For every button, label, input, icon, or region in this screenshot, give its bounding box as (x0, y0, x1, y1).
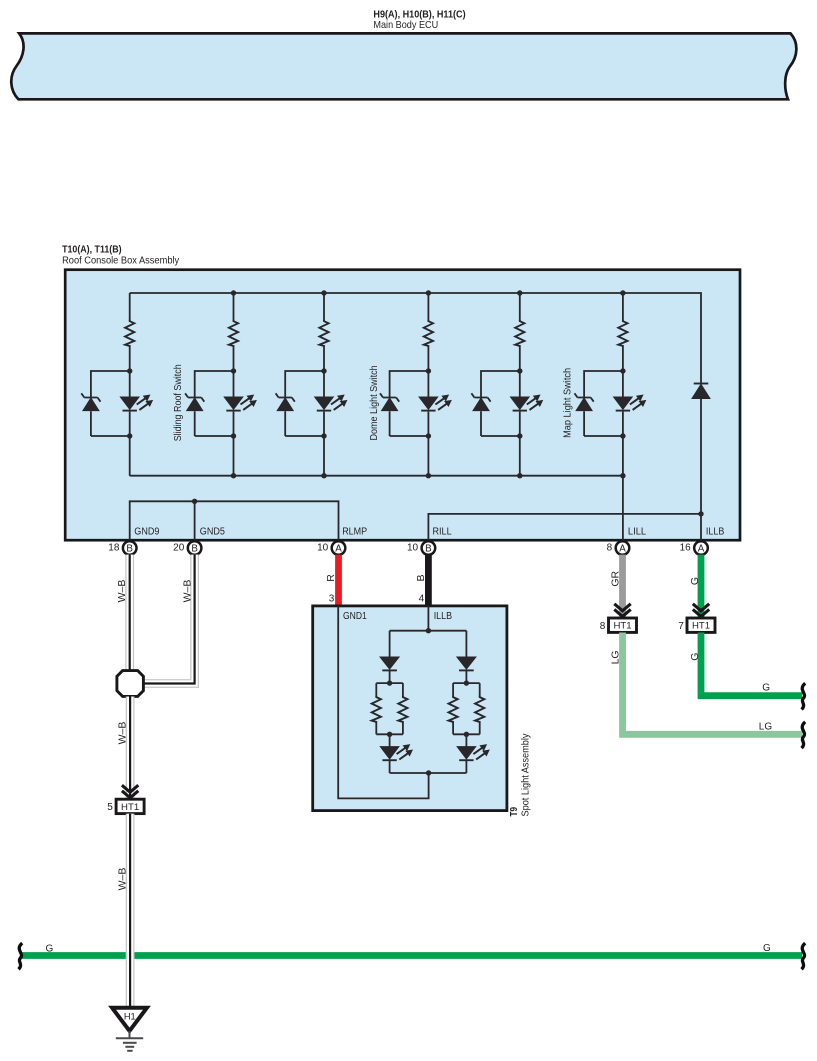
resistor branch 3 (319, 320, 328, 346)
svg-text:20: 20 (173, 543, 185, 554)
torn end of G wire (802, 683, 806, 709)
junction dots branch 5 (517, 290, 522, 478)
pin 8(A) of roof console box (607, 541, 630, 555)
svg-text:ILLB: ILLB (706, 526, 725, 537)
pin 18(B) of roof console box (108, 541, 136, 555)
svg-text:RILL: RILL (433, 526, 452, 537)
svg-text:A: A (619, 544, 626, 555)
wire branch 5 vertical (519, 293, 521, 476)
chevron splice above HT1 pin 5 (122, 785, 138, 798)
resistor branch 5 (515, 320, 524, 346)
wire branch 2 vertical (233, 293, 235, 476)
svg-text:RLMP: RLMP (342, 526, 367, 537)
pin 20(B) of roof console box (173, 541, 201, 555)
svg-text:18: 18 (108, 543, 120, 554)
svg-text:7: 7 (678, 621, 684, 632)
svg-text:B: B (126, 544, 133, 555)
pin 10(A) of roof console box (317, 541, 345, 555)
wire branch 4 vertical (427, 293, 429, 476)
svg-text:Dome Light Switch: Dome Light Switch (369, 365, 380, 440)
svg-text:LG: LG (610, 650, 622, 664)
ground H1 triangle (112, 1008, 147, 1031)
wire LG from HT1 pin 8 to right edge (623, 633, 803, 735)
wire zener sub-branch 6 (584, 371, 623, 436)
junction ILLB dot (698, 511, 703, 516)
wire W-B from HT1 pin 5 to ground H1 (126, 814, 135, 1007)
wire branch 6 vertical (622, 293, 624, 476)
svg-text:B: B (425, 544, 432, 555)
resistor branch 4 (424, 320, 433, 346)
zener diode branch 2 (185, 393, 204, 410)
svg-text:GND9: GND9 (134, 526, 159, 537)
connector HT1 pin 8 (600, 618, 637, 632)
wire bottom bus inside roof console box (130, 475, 623, 477)
wire G from HT1 pin 7 to right edge (701, 633, 802, 696)
ground stub (129, 1031, 131, 1038)
wire G bottom horizontal (taillight illumination feed) (21, 952, 802, 959)
LED spot right (457, 745, 489, 760)
svg-text:W–B: W–B (181, 580, 193, 603)
wire spot left branch (376, 671, 403, 773)
svg-text:LILL: LILL (628, 526, 647, 537)
svg-text:LG: LG (759, 722, 773, 733)
svg-text:W–B: W–B (117, 868, 129, 891)
wire GND9/GND5/RLMP common link (130, 501, 339, 541)
svg-text:B: B (191, 544, 198, 555)
wire zener sub-branch 2 (195, 371, 234, 436)
wire R from RLMP pin 10(A) to spot light GND1 (335, 555, 342, 605)
svg-text:Main Body ECU: Main Body ECU (373, 19, 438, 31)
wire LILL vertical to pin (622, 476, 624, 541)
wire spot right branch (453, 671, 480, 773)
LED map light switch lamp (614, 395, 646, 410)
LED spot left (380, 745, 412, 760)
diode spot right (457, 657, 476, 670)
wire G from ILLB pin 16(A) (698, 555, 705, 619)
wire spot bottom joining (390, 772, 467, 774)
resistor branch 1 (125, 320, 134, 346)
svg-text:A: A (698, 544, 705, 555)
wire W-B from pin 18(B) to junction J (125, 555, 134, 671)
LED illumination lamp 3 (511, 395, 543, 410)
connector HT1 pin 5 (107, 799, 144, 813)
svg-text:W–B: W–B (117, 722, 129, 745)
svg-text:8: 8 (600, 621, 606, 632)
wire zener sub-branch 5 (481, 371, 520, 436)
ground bars (116, 1038, 143, 1051)
svg-text:T9: T9 (509, 807, 520, 817)
diode ILLB branch (points up) (692, 384, 710, 398)
torn end left of bottom G wire (19, 943, 23, 969)
zener diode branch 6 (575, 393, 594, 410)
pin 10(B) of roof console box (407, 541, 435, 555)
wire W-B from pin 20(B) to junction J (145, 555, 195, 684)
junction dots branch 3 (321, 290, 326, 478)
svg-text:R: R (325, 574, 337, 582)
wire ILLB splitter (390, 606, 467, 658)
zener diode branch 5 (471, 393, 490, 410)
svg-text:G: G (762, 682, 770, 693)
wire GR from LILL pin 8(A) (619, 555, 626, 619)
chevron splice above HT1 pin 7 (693, 604, 709, 617)
svg-text:B: B (415, 574, 427, 581)
svg-text:10: 10 (407, 543, 419, 554)
svg-text:A: A (335, 544, 342, 555)
wire branch 3 vertical (323, 293, 325, 476)
svg-text:GND5: GND5 (200, 526, 225, 537)
svg-text:G: G (763, 943, 771, 954)
svg-text:GR: GR (610, 571, 622, 587)
svg-text:H1: H1 (124, 1011, 136, 1021)
torn end of LG wire (802, 722, 806, 748)
wire ILLB vertical to pin (700, 399, 702, 542)
LED illumination lamp 1 (120, 395, 152, 410)
wire W-B from junction J down to HT1 pin 5 (126, 697, 135, 800)
svg-text:GND1: GND1 (343, 611, 367, 622)
svg-text:5: 5 (107, 802, 113, 813)
resistor branch 2 (229, 320, 238, 346)
svg-text:Map Light Switch: Map Light Switch (563, 368, 574, 438)
wire B from RILL pin 10(B) to spot light ILLB (425, 555, 432, 605)
wire GND1 return path (338, 606, 428, 799)
svg-text:ILLB: ILLB (434, 611, 453, 622)
junction dot ILLB split (426, 628, 431, 633)
svg-text:Roof Console Box Assembly: Roof Console Box Assembly (62, 255, 180, 267)
zener diode branch 1 (81, 393, 100, 410)
svg-text:G: G (689, 653, 701, 661)
resistor branch 6 (618, 320, 627, 346)
torn end right of bottom G wire (802, 943, 806, 969)
junction dots branch 1 (127, 368, 132, 438)
chevron splice above HT1 pin 8 (614, 604, 630, 617)
LED illumination lamp 2 (315, 395, 347, 410)
junction dots branch 6 (620, 290, 625, 478)
wire zener sub-branch 1 (91, 371, 130, 436)
svg-text:T10(A), T11(B): T10(A), T11(B) (62, 243, 122, 255)
junction dot spot bottom (426, 770, 431, 775)
connector band Main Body ECU (11, 33, 796, 99)
resistor pair spot left (372, 696, 381, 722)
junction dots spot right (464, 680, 469, 737)
pin 16(A) of roof console box (680, 541, 708, 555)
svg-text:3: 3 (329, 593, 335, 604)
svg-text:G: G (689, 577, 701, 585)
svg-text:4: 4 (419, 593, 425, 604)
diode spot left (380, 657, 399, 670)
svg-text:W–B: W–B (116, 580, 128, 603)
wire top bus inside roof console box (130, 293, 701, 383)
svg-text:10: 10 (317, 543, 329, 554)
svg-text:16: 16 (680, 543, 692, 554)
connector box T9 Spot Light Assembly (313, 606, 507, 811)
junction GND5 dot (192, 499, 197, 504)
svg-text:Spot Light Assembly: Spot Light Assembly (521, 734, 532, 817)
LED sliding roof switch lamp (224, 395, 256, 410)
svg-text:8: 8 (607, 543, 613, 554)
wire zener sub-branch 4 (390, 371, 429, 436)
junction dots spot left (387, 680, 392, 737)
svg-text:G: G (46, 943, 54, 954)
wire branch 1 vertical (129, 293, 131, 476)
wire zener sub-branch 3 (285, 371, 324, 436)
connector HT1 pin 7 (678, 618, 715, 632)
junction dots branch 2 (231, 290, 236, 478)
junction connector J octagon (117, 671, 143, 697)
junction dots branch 4 (426, 290, 431, 478)
LED dome light switch lamp (419, 395, 451, 410)
wire RILL to ILLB link (428, 514, 701, 541)
svg-text:Sliding Roof Switch: Sliding Roof Switch (173, 364, 184, 441)
resistor pair spot right (449, 696, 458, 722)
zener diode branch 3 (276, 393, 295, 410)
zener diode branch 4 (380, 393, 399, 410)
connector box T10(A), T11(B) Roof Console Box Assembly (65, 270, 740, 541)
